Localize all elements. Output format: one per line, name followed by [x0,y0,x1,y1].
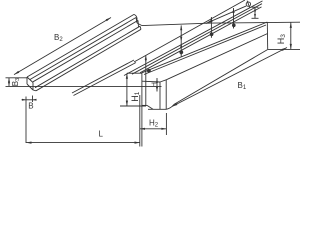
K1 top face far line [134,0,245,62]
B dimension [25,97,27,144]
svg-text:B1: B1 [238,81,247,91]
V3 hole dim [233,8,235,29]
svg-text:L: L [99,129,104,138]
front-left vertical edge [141,73,143,147]
P1 far-top edge of upstand [27,14,134,77]
phi symbol + leader [246,2,250,6]
P4 near-top edge of lower flat [35,26,140,87]
svg-text:B: B [28,101,33,110]
left end face of plate [27,77,33,83]
G1 front-top edge [142,22,267,73]
small dim near phi (groove width) [252,6,259,8]
B2 dimension line [14,18,111,75]
L dimension [26,142,140,144]
left under-rail pair La Lb [72,60,134,93]
H3 dimension [212,21,301,24]
P2 near-top edge of upstand [30,18,136,80]
svg-text:H3: H3 [276,34,287,45]
right vertical edge [266,22,268,49]
ledge verticals [159,82,161,109]
V2 hole dim [210,17,212,38]
G1b chamfer line under top edge [144,25,266,75]
svg-text:H1: H1 [130,91,141,102]
V0 hole dim near left end [145,56,147,106]
B1 dimension [172,48,287,107]
H dimension [156,78,158,92]
svg-text:B2: B2 [54,33,63,43]
P5 bottom near edge [36,29,141,91]
P3 step-bottom edge [33,20,138,81]
right end of plate (step down) [134,14,137,18]
V1 hole dim [180,25,182,56]
extension line from plate end to V1 dim [142,23,212,26]
svg-text:B3: B3 [11,78,21,86]
bottom edge: foot profile [142,104,147,106]
ledge corner and G2 ledge edge on front face [160,80,166,82]
tab top edge at left [142,80,160,83]
svg-text:H: H [152,82,159,87]
H1 dimension [127,72,142,74]
K3 K4 K5 groove triple [124,1,263,76]
B3 dimension [6,77,28,79]
svg-text:H2: H2 [149,119,159,129]
H2 dimension [140,128,166,130]
